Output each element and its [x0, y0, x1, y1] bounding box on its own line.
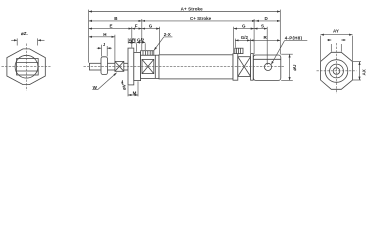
svg-text:B: B: [114, 16, 118, 21]
ext cap left: [253, 19, 255, 54]
hexagon (nut outline): [7, 49, 45, 85]
svg-text:J: J: [103, 42, 106, 47]
rear port boss with thread hatch: [235, 48, 243, 53]
svg-text:S: S: [261, 23, 264, 28]
dimension oV vertical: [121, 80, 126, 90]
svg-text:2-X: 2-X: [164, 32, 171, 37]
svg-text:C+ Stroke: C+ Stroke: [190, 16, 212, 21]
svg-text:F: F: [135, 24, 138, 29]
dimension G/2 rear: [235, 35, 250, 40]
rear ring: [233, 54, 238, 81]
ext rear band: [249, 39, 251, 53]
cylinder tube: [159, 55, 233, 79]
rear inner circle: [330, 64, 344, 78]
dimension C+Stroke: [142, 16, 256, 21]
label W with leader: [92, 73, 116, 90]
rod mounting nut (X flats): [115, 61, 124, 71]
end cap block: [253, 55, 280, 80]
dimension AX vertical: [353, 62, 367, 80]
collar boss: [134, 52, 141, 80]
ext flange right: [131, 27, 133, 48]
rear band: [251, 54, 254, 81]
svg-text:G/2: G/2: [137, 37, 145, 42]
main view piston rod: [89, 63, 128, 70]
head port boss with thread hatch: [141, 51, 154, 56]
main centerline: [84, 65, 285, 67]
dimension AY: [321, 29, 353, 61]
svg-text:G: G: [242, 24, 246, 29]
rod flats chords: [17, 59, 39, 76]
mounting flange plate: [128, 48, 134, 85]
dimension R: [250, 35, 280, 40]
head wrench flats (X square): [142, 59, 154, 73]
dimension S: [254, 23, 267, 28]
svg-text:E: E: [110, 24, 113, 29]
rear wrench flats (X square): [238, 57, 251, 77]
svg-text:H: H: [103, 32, 106, 37]
svg-text:G/2: G/2: [241, 35, 249, 40]
rear outer circle: [325, 60, 348, 83]
svg-text:4-P(H8): 4-P(H8): [285, 35, 303, 40]
dimension top flat (unnamed): [327, 40, 346, 52]
dimension J washer: [97, 42, 112, 57]
label 2-X with leader: [154, 32, 172, 50]
ext collar right: [136, 43, 138, 52]
label 4-P(H8) with leader: [271, 35, 307, 64]
svg-text:D: D: [265, 16, 269, 21]
clevis hole P: [264, 63, 271, 70]
ext tube start: [159, 27, 161, 54]
dimension row A+Stroke: [89, 7, 281, 12]
ext hole center: [266, 27, 268, 65]
dimension F: [132, 24, 142, 29]
dimension D: [256, 16, 281, 21]
svg-text:M: M: [133, 90, 137, 95]
svg-text:⌀V: ⌀V: [121, 84, 126, 90]
ext rear boss left: [234, 39, 236, 48]
svg-text:G: G: [149, 24, 153, 29]
rear hole circle: [333, 68, 340, 75]
hex centerlines: [2, 44, 51, 91]
dimension G/2 front: [137, 37, 146, 42]
ext rear ring left: [233, 27, 235, 53]
dimension M: [128, 81, 138, 96]
svg-text:⌀Z.: ⌀Z.: [21, 31, 28, 36]
svg-text:AX: AX: [362, 69, 367, 75]
dimension G rear: [234, 24, 255, 29]
svg-text:W: W: [93, 85, 98, 90]
ext port mid: [144, 43, 146, 50]
rear centerlines: [317, 43, 357, 94]
ext cap right: [279, 10, 281, 55]
ext nut left: [114, 35, 116, 61]
svg-text:A+ Stroke: A+ Stroke: [181, 7, 204, 12]
dimension oU vertical: [281, 54, 297, 80]
svg-text:⌀U: ⌀U: [292, 65, 297, 71]
head cover block: [141, 55, 159, 78]
ext port left long: [141, 19, 143, 50]
rear hex outline (octagon): [321, 52, 353, 89]
dimension oZ over hex: [11, 31, 44, 45]
dimension AR: [128, 37, 136, 43]
dimension E: [89, 24, 132, 29]
inscribed circle: [15, 55, 38, 78]
dimension B: [89, 16, 142, 21]
ext rod tip: [88, 10, 90, 63]
svg-text:AR: AR: [129, 37, 136, 42]
dimension H: [89, 32, 115, 37]
dimension G front: [142, 24, 160, 29]
rod washer: [101, 57, 108, 75]
svg-text:AY: AY: [333, 29, 339, 34]
